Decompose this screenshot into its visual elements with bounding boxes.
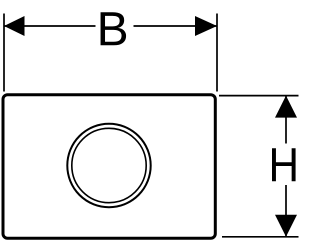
H dimension line bottom segment [285, 185, 287, 237]
B extension line right [216, 14, 218, 92]
B extension line left [3, 14, 5, 92]
label H [272, 148, 296, 181]
H extension line bottom [222, 236, 299, 238]
H arrow down [275, 215, 297, 237]
actuator inner circle [72, 128, 146, 202]
flush plate outline [3, 95, 215, 239]
H extension line top [219, 95, 299, 97]
B dimension line right segment [134, 25, 218, 27]
B dimension line left segment [4, 25, 96, 27]
B arrow right [195, 16, 217, 36]
actuator outer circle [67, 124, 150, 207]
H arrow up [275, 96, 297, 118]
label B [101, 12, 127, 45]
B arrow left [4, 16, 25, 36]
H dimension line top segment [285, 96, 287, 144]
